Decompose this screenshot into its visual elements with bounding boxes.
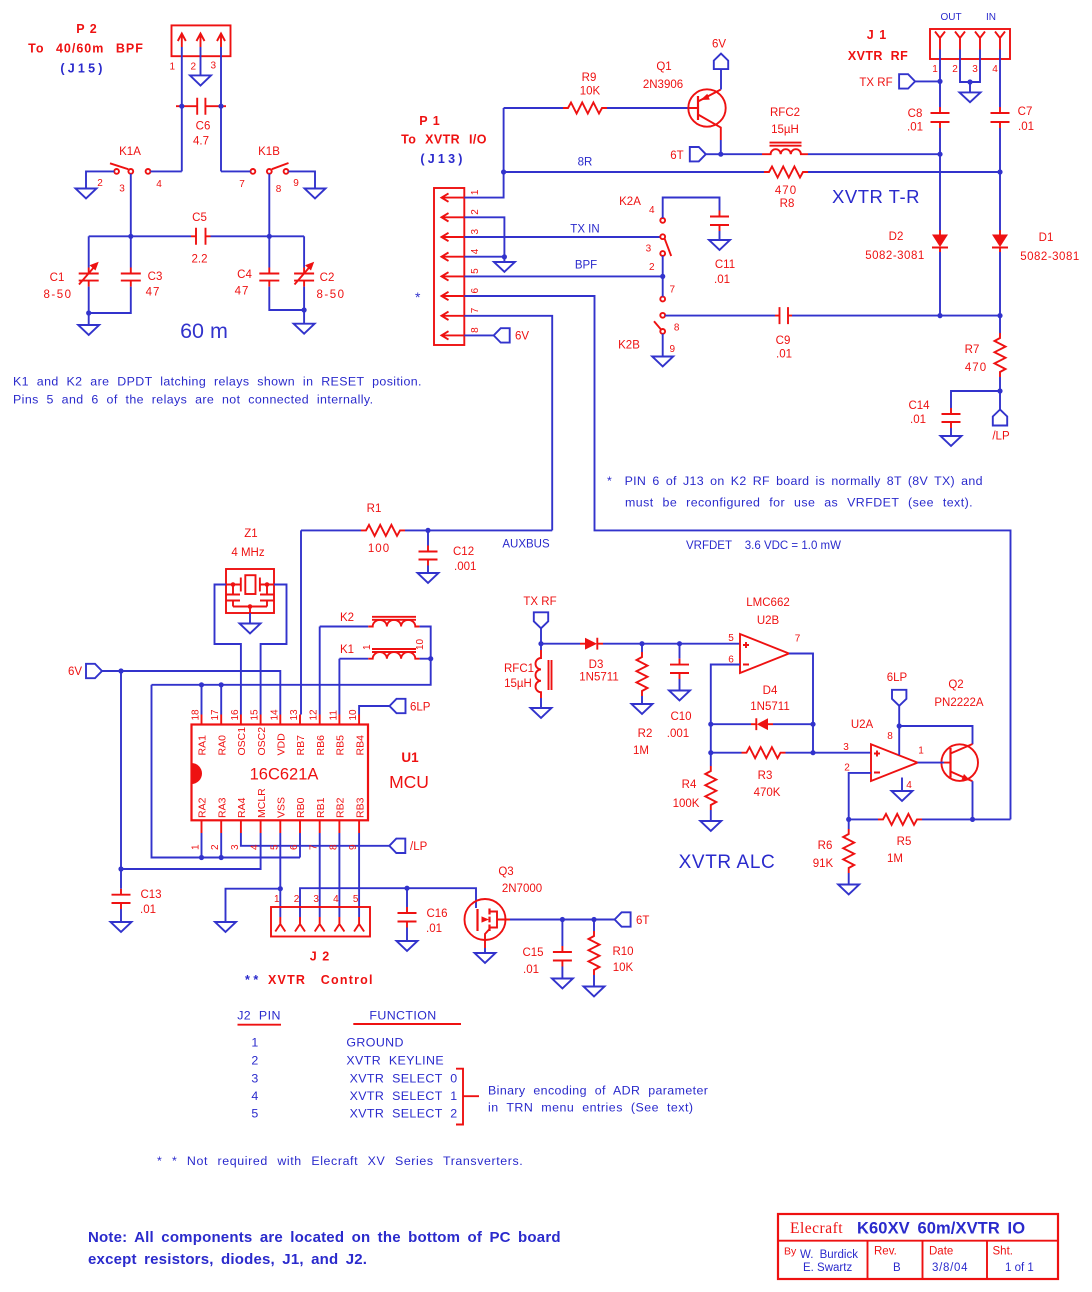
svg-text:R8: R8 [780,198,795,210]
svg-text:RA0: RA0 [216,735,228,756]
resistor R8 470 [764,167,1000,211]
capacitor C5 2.2 [191,212,211,266]
power flag /LP at R7 [992,391,1010,443]
svg-text:7: 7 [795,634,801,645]
IC U1 pin 11 RB5 [328,710,346,756]
node 6V/MCLR [118,866,123,871]
power flag /LP at U1 pin3 [241,833,428,853]
svg-text:3: 3 [211,61,217,72]
svg-text:RB3: RB3 [354,797,366,818]
svg-text:C9: C9 [776,335,791,347]
wire U2B pin6 feedback [711,665,740,753]
svg-text:Rev.: Rev. [874,1246,897,1258]
wire VRFDET net: P1 pin6 right edge run [464,296,1010,819]
wire C5 rail right [211,235,305,237]
power flag TX RF at J1 [859,74,940,89]
svg-text:1 of 1: 1 of 1 [1005,1262,1034,1274]
power flag 6LP at U2A [887,672,908,755]
svg-text:(J15): (J15) [60,62,105,76]
svg-text:RFC1: RFC1 [504,663,534,675]
wire U2B output down [789,654,813,753]
svg-text:RA4: RA4 [236,797,248,818]
svg-text:C15: C15 [522,947,543,959]
wire U2A pin4 to ground [901,778,903,792]
wire 6T node to RFC2 [721,153,762,155]
wire D3 to U2B + [603,643,740,645]
wire Z1 right loop to OSC2 [261,585,287,715]
wire 6V flag to VDD [102,671,280,715]
ground at Q3 [475,953,496,963]
ground at VSS [215,922,236,932]
ground below R6 [838,885,859,895]
resistor R2 1M [633,644,652,757]
wire P2 pin3 to C6 and K1B [220,47,222,171]
wire Q2 emitter down [972,781,974,819]
capacitor C10 .001 [667,644,692,740]
svg-text:9: 9 [670,344,676,355]
capacitor C11 .01 [710,211,735,287]
svg-text:D2: D2 [889,231,904,243]
connector P1 pin 7 arrow [442,307,482,320]
ground below R2 [632,704,653,714]
wire VSS ground branch [226,889,281,922]
svg-text:U2B: U2B [757,615,780,627]
ground below R10 [584,987,605,997]
svg-text:3/8/04: 3/8/04 [932,1262,968,1274]
svg-text:8-50: 8-50 [316,289,345,301]
wire P1 pin4 to ground [464,257,504,262]
crystal Z1 4 MHz [226,528,274,613]
svg-text:4: 4 [649,205,655,216]
resistor R10 10K [589,920,634,987]
svg-text:1: 1 [470,189,481,195]
svg-text:.01: .01 [523,964,539,976]
svg-text:6T: 6T [636,915,649,927]
svg-text:C2: C2 [320,272,335,284]
svg-text:* *: * * [245,973,258,987]
node keyline C16 [404,886,409,891]
capacitor C15 .01 [522,920,571,979]
ground at J1 [960,92,981,102]
svg-text:5: 5 [728,633,734,644]
diode D3 1N5711 [579,638,618,684]
resistor R5 1M [849,814,1011,865]
IC U1 pin 10 RB4 [348,709,366,756]
power flag 6LP at U1 pin10 [359,699,431,715]
svg-text:R3: R3 [758,770,773,782]
svg-text:2: 2 [470,209,481,215]
wire P1 pin1 to 8R node [464,172,503,198]
svg-text:R6: R6 [818,840,833,852]
wire K1B pin8 down to C5 node [268,174,270,237]
node R2 [639,641,644,646]
svg-text:6V: 6V [712,39,726,51]
svg-text:1: 1 [251,1036,258,1050]
svg-text:14: 14 [269,709,280,721]
svg-text:2: 2 [97,178,103,189]
svg-text:5082-3081: 5082-3081 [1020,251,1080,263]
svg-text:Q1: Q1 [656,61,671,73]
svg-text:2: 2 [251,1054,258,1068]
svg-text:.01: .01 [1018,121,1034,133]
connector J1 pin 2 arrow [952,32,965,76]
wire K2A pin4 to C11 [663,198,720,219]
svg-text:1M: 1M [887,853,903,865]
svg-text:FUNCTION: FUNCTION [369,1009,436,1023]
IC U1 16C621A MCU [192,725,429,821]
svg-text:XVTR Control: XVTR Control [268,973,374,987]
svg-text:Binary encoding of ADR paramet: Binary encoding of ADR parameter [488,1084,708,1098]
wire RB0 to rail [299,833,301,858]
wire K2A pin3 to BPF node [662,256,664,297]
connector J2 pin 2 arrow [294,894,305,932]
svg-text:6T: 6T [670,150,683,162]
relay contact K1A [97,146,162,195]
svg-text:2N7000: 2N7000 [502,883,542,895]
node 6T/RFC2 junction [718,152,723,157]
svg-text:J 1: J 1 [867,28,887,42]
svg-text:C3: C3 [148,271,163,283]
svg-text:C7: C7 [1018,106,1033,118]
IC U1 pin 15 OSC2 [250,709,268,756]
capacitor C4 47 [235,236,304,310]
svg-text:R2: R2 [638,728,653,740]
connector P1 pin 8 arrow [442,327,482,340]
ground below C1 [78,313,99,335]
svg-text:12: 12 [309,709,320,721]
svg-text:7: 7 [470,307,481,313]
capacitor C13 .01 [112,889,162,922]
node R10 [591,917,596,922]
power flag 6V at P1 pin8 [494,328,510,342]
trimmer capacitor C2 8-50 [294,236,345,310]
svg-text:4: 4 [251,1089,258,1103]
wire Q1 collector to 6T node [720,140,722,154]
svg-text:RFC2: RFC2 [770,107,800,119]
svg-text:15: 15 [250,709,261,721]
relay contact K1B [239,146,299,195]
svg-text:GROUND: GROUND [346,1036,403,1050]
resistor R1 100 [301,503,428,555]
resistor R4 100K [673,753,717,821]
wire left rail down [152,685,301,858]
svg-text:R9: R9 [582,72,597,84]
svg-text:R1: R1 [367,503,382,515]
capacitor C16 .01 [398,888,448,941]
svg-text:4: 4 [333,894,339,905]
ground below C2 [294,310,315,334]
svg-text:C1: C1 [50,272,65,284]
ground at K1B [305,189,326,199]
svg-text:Pins 5 and 6 of the relays are: Pins 5 and 6 of the relays are not conne… [13,393,373,407]
wire VSS down to J2 pin1 [279,833,281,917]
inductor RFC2 15uH [762,107,808,154]
wire P1 pin8 to 6V flag [464,334,493,336]
node R7/C14//LP [997,388,1002,393]
svg-text:3: 3 [470,229,481,235]
svg-text:8: 8 [328,844,339,850]
svg-text:XVTR KEYLINE: XVTR KEYLINE [346,1054,444,1068]
connector P2 pin 1 arrow [178,34,186,48]
svg-text:1: 1 [932,64,938,75]
svg-text:8: 8 [887,731,893,742]
svg-text:C12: C12 [453,546,474,558]
wire AUXBUS net: P1 pin7 down to R1 [464,316,552,531]
svg-text:OSC1: OSC1 [236,727,248,756]
IC U1 pin 9 RB3 [348,797,366,850]
wire RB2 to J2 pin4 [338,833,340,917]
svg-text:RB1: RB1 [315,797,327,818]
svg-text:MCU: MCU [389,772,429,792]
svg-text:60 m: 60 m [180,319,228,343]
node C15 [560,917,565,922]
wire 6V rail down to C13 [120,671,122,889]
node C8/RFC2/D2 [937,152,942,157]
svg-text:4.7: 4.7 [193,136,209,148]
svg-text:K1: K1 [340,644,354,656]
svg-text:8: 8 [470,327,481,333]
wire AUXBUS net [428,529,552,531]
node 6V rail [118,668,123,673]
svg-text:6V: 6V [515,331,529,343]
resistor R3 470K [711,747,813,799]
IC U1 pin 7 RB1 [309,797,327,850]
svg-text:D1: D1 [1039,232,1054,244]
ground below C11 [709,240,730,250]
IC U1 pin 5 VSS [269,797,287,850]
node R3 right [810,750,815,755]
svg-text:U2A: U2A [851,719,874,731]
svg-text:RB6: RB6 [315,735,327,756]
svg-text:1: 1 [191,844,202,850]
svg-text:4: 4 [992,64,998,75]
IC U1 pin 16 OSC1 [230,709,248,756]
node C7/R8/D1 [997,169,1002,174]
wire RA2 [201,833,203,858]
node C10 [677,641,682,646]
node C5 right [267,234,272,239]
svg-text:17: 17 [210,709,221,721]
svg-text:3: 3 [843,742,849,753]
connector J2 [271,907,370,964]
svg-text:1N5711: 1N5711 [750,701,789,713]
svg-text:LMC662: LMC662 [746,597,789,609]
svg-text:470K: 470K [754,787,781,799]
wire RFC2 to C8/D2 node [808,153,940,155]
ground at U2A pin4 [892,791,913,801]
wire TX RF to D3 [541,643,580,645]
node VSS ground [278,886,283,891]
ground at K1A [76,189,97,199]
svg-text:47: 47 [235,286,250,298]
svg-text:VRFDET 3.6 VDC = 1.0 mW: VRFDET 3.6 VDC = 1.0 mW [686,540,841,552]
capacitor C8 .01 [907,107,950,154]
svg-text:K2: K2 [340,612,354,624]
connector P1 pin 5 arrow [442,268,482,281]
node D1 line [997,313,1002,318]
node D4 left [708,722,713,727]
connector J1 pin 1 arrow [932,32,945,76]
svg-text:8: 8 [674,323,680,334]
svg-text:4: 4 [470,248,481,254]
svg-text:XVTR SELECT 1: XVTR SELECT 1 [350,1089,458,1103]
svg-text:91K: 91K [813,858,834,870]
wire RB1 to J2 pin3 [319,833,321,917]
IC U1 pin 2 RA3 [210,797,228,850]
svg-text:* PIN 6 of J13 on K2 RF board: * PIN 6 of J13 on K2 RF board is normall… [607,474,983,488]
svg-text:1: 1 [362,644,373,650]
power flag TX RF at ALC [523,596,556,644]
svg-text:10K: 10K [613,962,634,974]
connector P1 pin 2 arrow [442,209,482,222]
wire K1A pin4 to C6 [150,170,181,172]
node R3 left [708,750,713,755]
node RA3 [219,855,224,860]
diode D1 5082-3081 [992,172,1080,316]
svg-text:K1B: K1B [258,146,280,158]
svg-text:RB7: RB7 [295,735,307,756]
svg-text:2N3906: 2N3906 [643,79,683,91]
ground below C14 [941,436,962,446]
svg-text:Note: All components are locat: Note: All components are located on the … [88,1229,561,1246]
connector P1 pin 4 arrow [442,248,482,261]
wire R1 left to U1 pin13 [300,530,302,714]
node D4 right [810,722,815,727]
connector P1 pin 6 arrow [442,288,482,301]
svg-text:E. Swartz: E. Swartz [803,1262,852,1274]
svg-text:Date: Date [929,1246,953,1258]
capacitor C7 .01 [991,59,1035,172]
svg-text:6V: 6V [68,666,82,678]
svg-text:.001: .001 [454,561,476,573]
IC U1 pin 18 RA1 [191,709,209,756]
svg-text:C16: C16 [426,908,447,920]
node C6 right [218,104,223,109]
node R5/R6 [846,817,851,822]
svg-text:4: 4 [906,780,912,791]
svg-text:Z1: Z1 [244,528,257,540]
node RA1 [199,682,204,687]
svg-text:Q3: Q3 [498,866,513,878]
IC U1 pin 4 MCLR [250,788,268,850]
svg-text:P 1: P 1 [419,114,441,128]
svg-text:15µH: 15µH [504,678,532,690]
svg-text:C11: C11 [715,259,735,271]
diode D2 5082-3081 [865,154,948,315]
svg-text:VSS: VSS [276,797,288,818]
connector J2 pin 3 arrow [313,894,324,932]
svg-text:By: By [784,1246,797,1258]
svg-text:3: 3 [313,894,319,905]
svg-text:Elecraft: Elecraft [790,1220,843,1237]
node C5 left [128,234,133,239]
svg-text:5082-3081: 5082-3081 [865,250,925,262]
node coil return [428,656,433,661]
wire TX IN net: P1 pin3 to K2A [464,236,660,238]
node BPF at K2A [660,274,665,279]
node Q2 emitter/R5 [970,817,975,822]
svg-text:2.2: 2.2 [192,254,208,266]
power flag 6V at U1 [68,664,102,678]
wire coil return to RA rail [152,659,431,685]
connector J2 pin 1 arrow [274,894,285,932]
svg-text:9: 9 [293,178,299,189]
IC U1 pin 17 RA0 [210,709,228,756]
svg-text:6: 6 [470,288,481,294]
resistor R9 10K [504,72,690,114]
svg-text:3: 3 [646,244,652,255]
wire K2B pin8 to C9 [665,315,775,317]
svg-text:R7: R7 [965,344,980,356]
wire J1 pins 2,3 to ground [960,59,980,92]
ground below C13 [111,922,132,932]
connector P1 [401,114,487,345]
node P1 pin2/pin4 ground [502,254,507,259]
svg-text:.01: .01 [426,923,442,935]
node C6 left [179,104,184,109]
svg-text:K1 and K2 are DPDT latching re: K1 and K2 are DPDT latching relays shown… [13,375,422,389]
op-amp U2A [843,719,924,791]
svg-text:1: 1 [918,746,924,757]
svg-text:RB2: RB2 [335,797,347,818]
svg-text:except resistors, diodes, J1,: except resistors, diodes, J1, and J2. [88,1251,367,1268]
svg-text:47: 47 [146,287,161,299]
svg-text:1N5711: 1N5711 [579,672,618,684]
wire BPF net: P1 pin5 to K2A common [464,275,662,277]
svg-text:2: 2 [649,262,655,273]
IC U1 pin 12 RB6 [309,709,327,756]
wire Z1 left loop to OSC1 [215,585,241,715]
node RA2 [199,855,204,860]
svg-text:XVTR RF: XVTR RF [848,49,908,63]
svg-text:D3: D3 [589,659,604,671]
svg-text:C5: C5 [192,212,207,224]
wire K1B pin7 to C6 [221,170,251,172]
svg-text:C4: C4 [237,269,252,281]
wire Z1 to ground [249,613,251,624]
capacitor C3 47 [89,236,163,313]
svg-text:2: 2 [210,844,221,850]
node R1/C12 [425,528,430,533]
svg-text:15µH: 15µH [771,124,799,136]
power flag 6V at Q1 [712,39,728,90]
trimmer capacitor C1 8-50 [43,236,98,313]
svg-text:RA2: RA2 [197,797,209,818]
svg-text:K60XV 60m/XVTR IO: K60XV 60m/XVTR IO [857,1220,1025,1238]
node TX RF / J1 pin1 [937,79,942,84]
svg-text:/LP: /LP [410,841,428,853]
svg-text:3: 3 [251,1072,258,1086]
svg-text:must be reconfigured for use a: must be reconfigured for use as VRFDET (… [625,496,973,510]
connector J1 [848,12,1010,63]
svg-text:4: 4 [250,844,261,850]
svg-text:.01: .01 [910,414,926,426]
resistor R7 470 [965,316,1006,391]
capacitor C14 .01 [908,391,1000,436]
node J1 pin2/3 ground [967,79,972,84]
IC U1 pin 13 RB7 [289,709,307,756]
svg-text:5: 5 [269,844,280,850]
svg-text:2: 2 [191,62,197,73]
svg-text:BPF: BPF [575,260,597,272]
node 8R junction [501,169,506,174]
connector P2 pin 2 arrow [197,34,205,48]
svg-text:5: 5 [470,268,481,274]
svg-text:1: 1 [274,894,280,905]
wire RA3 [220,833,222,858]
transistor Q3 2N7000 [465,866,543,948]
ground below C15 [552,979,573,989]
